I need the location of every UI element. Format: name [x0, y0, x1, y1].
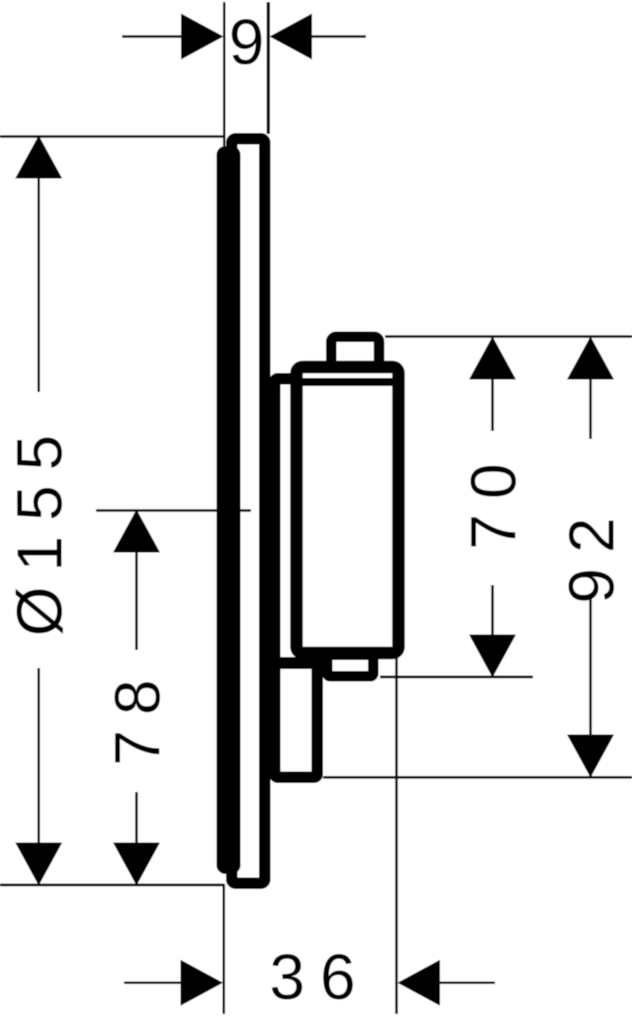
dimension line 70: [491, 338, 494, 676]
extension line 78 top: [96, 509, 251, 512]
dimension 9 left arrow: [181, 14, 224, 60]
dimension 9 right line: [312, 35, 366, 38]
extension line top left of 9: [223, 2, 226, 146]
svg-text:Ø155: Ø155: [4, 420, 76, 637]
in-wall housing iBox: [275, 379, 318, 778]
bottom stub: [327, 655, 373, 677]
svg-text:70: 70: [458, 448, 530, 549]
escutcheon plate outline: [232, 139, 265, 884]
svg-text:36: 36: [269, 941, 370, 1013]
extension line right top: [385, 335, 632, 338]
dimension line 92: [589, 338, 592, 776]
78 text background: [108, 650, 164, 792]
dimension 36 left arrow: [181, 960, 224, 1006]
escutcheon front bar: [217, 146, 241, 874]
extension line top right of 9: [267, 2, 270, 134]
extension line plate top: [0, 135, 223, 138]
70 top arrow: [469, 337, 516, 380]
dimension 36 right line: [439, 982, 495, 985]
92 bottom arrow: [567, 735, 614, 778]
valve body: [297, 367, 399, 653]
70 bottom arrow: [469, 635, 516, 678]
body seam bar: [293, 378, 402, 386]
dimension line D155: [37, 137, 40, 884]
svg-text:78: 78: [102, 664, 174, 765]
78 bottom arrow: [113, 843, 160, 886]
dimension 36 left line: [124, 982, 182, 985]
dimension 9 left line: [122, 35, 182, 38]
dimension line 78: [135, 511, 138, 884]
housing step bar: [278, 657, 316, 669]
dimension 9 right arrow: [270, 14, 313, 60]
top knob stub: [331, 337, 379, 369]
D155 text background: [10, 392, 66, 668]
92 text background: [562, 439, 618, 596]
D155 bottom arrow: [15, 843, 62, 886]
svg-text:92: 92: [556, 502, 628, 603]
svg-text:9: 9: [229, 6, 265, 78]
78 top arrow: [113, 510, 160, 553]
extension line bottom right: [395, 658, 398, 1014]
D155 top arrow: [15, 136, 62, 179]
extension line right bottom: [323, 776, 632, 779]
extension line plate bottom: [0, 884, 224, 887]
dimension 36 right arrow: [398, 960, 441, 1006]
70 text background: [464, 431, 520, 585]
extension line right middle: [380, 676, 533, 679]
92 top arrow: [567, 337, 614, 380]
extension line bottom left: [223, 884, 226, 1014]
